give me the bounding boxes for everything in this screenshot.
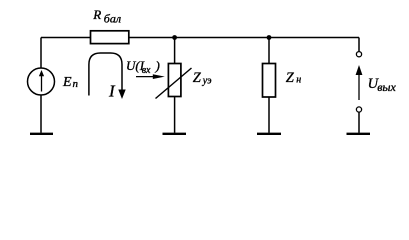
wire left vertical from top rail to source — [40, 38, 42, 69]
svg-text:): ) — [155, 58, 160, 73]
wire below Zн — [268, 97, 270, 133]
terminal bottom — [356, 107, 361, 112]
svg-text:уэ: уэ — [202, 75, 212, 86]
source arrow — [41, 75, 43, 92]
svg-text:п: п — [73, 78, 79, 90]
arrow U(Iвх) — [136, 76, 155, 78]
wire below bottom terminal — [358, 112, 360, 133]
terminal top — [356, 52, 361, 57]
load Z_н — [263, 64, 276, 98]
svg-text:Z: Z — [193, 70, 202, 86]
ground bar 2 — [163, 133, 187, 135]
controlled element Z_уэ — [168, 64, 181, 97]
ground bar 3 — [257, 133, 281, 135]
svg-text:бал: бал — [104, 12, 121, 26]
wire below source — [40, 95, 42, 133]
current source E_п — [28, 68, 55, 95]
svg-text:Z: Z — [286, 70, 295, 86]
ground bar 1 — [30, 133, 53, 135]
svg-text:вых: вых — [377, 80, 396, 94]
wire below Zуэ — [174, 97, 176, 133]
wire top rail — [41, 37, 359, 39]
current loop arrow — [89, 53, 122, 96]
node junction dot 1 — [172, 35, 177, 40]
resistor R_бал — [91, 31, 129, 44]
svg-text:вх: вх — [142, 65, 151, 76]
arrow U_вых — [358, 74, 360, 100]
svg-text:н: н — [296, 75, 301, 86]
wire junction2 to Zн — [268, 38, 270, 64]
svg-text:E: E — [62, 75, 72, 90]
variability diagonal — [156, 68, 192, 99]
current loop arrowhead — [118, 90, 125, 100]
wire right drop to output terminal — [358, 38, 360, 52]
node junction dot 2 — [267, 35, 272, 40]
svg-text:R: R — [92, 7, 101, 22]
ground bar 4 — [347, 133, 371, 135]
wire junction1 to Zуэ — [174, 38, 176, 64]
